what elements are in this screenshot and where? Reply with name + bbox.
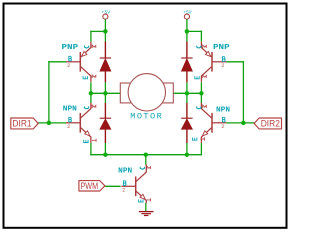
transistor Q2 (NPN left): [66, 103, 91, 143]
Q4 pin number 3: [200, 137, 204, 140]
svg-text:MOTOR: MOTOR: [130, 112, 162, 122]
Q1 pin number 3: [92, 75, 96, 78]
wire Q1C-Q2C column: [90, 82, 92, 103]
junction rail Q5: [144, 152, 149, 157]
svg-text:+5V: +5V: [101, 10, 110, 16]
motor brush left: [120, 83, 132, 103]
junction top-left: [103, 29, 108, 34]
transistor Q4 (NPN right): [201, 103, 226, 143]
wire top-right horizontal: [186, 30, 202, 32]
+5V supply symbol P2: [183, 10, 192, 20]
net label PWM: [79, 181, 105, 191]
svg-text:2: 2: [67, 124, 70, 130]
wire Q4 emitter to rail: [200, 143, 202, 156]
diode D4 (lower right): [181, 103, 192, 143]
net label DIR2: [254, 118, 281, 129]
wire Q5 emitter to gnd: [145, 203, 147, 212]
Q3 pin name E: [197, 46, 201, 48]
Q4 pin name E: [193, 138, 197, 141]
junction DIR1: [47, 121, 52, 126]
Q4 pin name B: [223, 117, 226, 122]
svg-text:2: 2: [122, 188, 125, 194]
svg-text:2: 2: [221, 124, 224, 130]
wire +5V left drop: [104, 19, 106, 31]
wire motor left: [91, 92, 120, 94]
net label DIR1: [11, 118, 38, 129]
wire D2 anode to rail: [104, 143, 106, 155]
junction rail D2: [103, 152, 108, 157]
Q5 pin name C: [140, 167, 144, 169]
diode D3 (upper right): [181, 42, 192, 83]
wire DIR1 to base: [38, 122, 66, 124]
Q4 pin number 1: [203, 105, 207, 108]
junction top-right: [185, 29, 190, 34]
wire Q5 collector: [145, 155, 147, 165]
junction motor R1: [185, 91, 190, 96]
svg-text:+5V: +5V: [183, 10, 192, 16]
junction motor R2: [199, 91, 204, 96]
Q2 pin name C: [85, 106, 89, 108]
Q3 pin number 1: [203, 45, 207, 48]
wire +5V right drop: [186, 19, 188, 31]
wire Q1 emitter drop: [90, 31, 92, 42]
motor body M1: [128, 74, 165, 111]
diode D2 (lower left): [100, 103, 111, 143]
Q5 pin name B: [123, 181, 126, 186]
svg-text:DIR1: DIR1: [12, 119, 31, 129]
wire Q3 emitter drop: [200, 31, 202, 42]
svg-text:PWM: PWM: [81, 181, 99, 191]
svg-text:NPN: NPN: [63, 105, 77, 113]
Q1 pin name C: [83, 76, 87, 79]
Q2 pin name B: [69, 117, 72, 122]
wire Q3C-Q4C column: [200, 82, 202, 103]
motor brush right: [161, 83, 173, 103]
Q2 pin number 3: [92, 139, 96, 142]
svg-text:NPN: NPN: [216, 106, 230, 114]
Q1 pin name E: [85, 46, 89, 48]
wire D1 cathode drop: [104, 31, 106, 41]
Q5 pin name E: [139, 199, 143, 202]
Q3 pin name B: [223, 57, 226, 62]
Q5 pin number 1: [147, 166, 151, 169]
Q4 pin name C: [197, 106, 201, 108]
svg-text:PNP: PNP: [213, 44, 230, 52]
wire to Q1 base: [48, 61, 66, 63]
wire D1-D2 column: [104, 82, 106, 103]
junction motor L2: [103, 91, 108, 96]
wire D4 anode to rail: [186, 143, 188, 155]
ground symbol: [139, 212, 154, 216]
Q3 pin number 3: [203, 75, 207, 78]
wire DIR2 riser: [242, 61, 244, 123]
Q2 pin number 1: [92, 105, 96, 108]
wire DIR1 riser: [48, 61, 50, 123]
Q5 pin number 3: [146, 198, 150, 201]
wire D3 cathode drop: [186, 31, 188, 41]
junction motor L1: [89, 91, 94, 96]
transistor Q1 (PNP left): [66, 42, 91, 82]
wire DIR2 to base: [226, 122, 254, 124]
svg-text:DIR2: DIR2: [261, 119, 280, 129]
wire motor right: [173, 92, 201, 94]
diode D1 (upper left): [100, 42, 111, 83]
transistor Q3 (PNP right): [201, 42, 226, 82]
Q3 pin name C: [195, 76, 199, 79]
wire top-left horizontal: [90, 30, 106, 32]
svg-text:2: 2: [221, 63, 224, 69]
svg-text:2: 2: [67, 63, 70, 69]
junction rail D4: [185, 152, 190, 157]
wire PWM to base: [105, 185, 121, 187]
Q1 pin name B: [69, 56, 72, 61]
junction DIR2: [241, 121, 246, 126]
Q2 pin name E: [84, 140, 88, 143]
svg-text:PNP: PNP: [62, 44, 79, 52]
svg-text:NPN: NPN: [118, 167, 132, 175]
Q1 pin number 1: [92, 45, 96, 48]
wire Q2 emitter to rail: [90, 143, 92, 156]
wire D3-D4 column: [186, 82, 188, 103]
+5V supply symbol P1: [101, 10, 110, 20]
transistor Q5 (NPN pwm): [121, 165, 146, 204]
wire to Q3 base: [226, 61, 244, 63]
wire bottom rail: [90, 154, 202, 156]
